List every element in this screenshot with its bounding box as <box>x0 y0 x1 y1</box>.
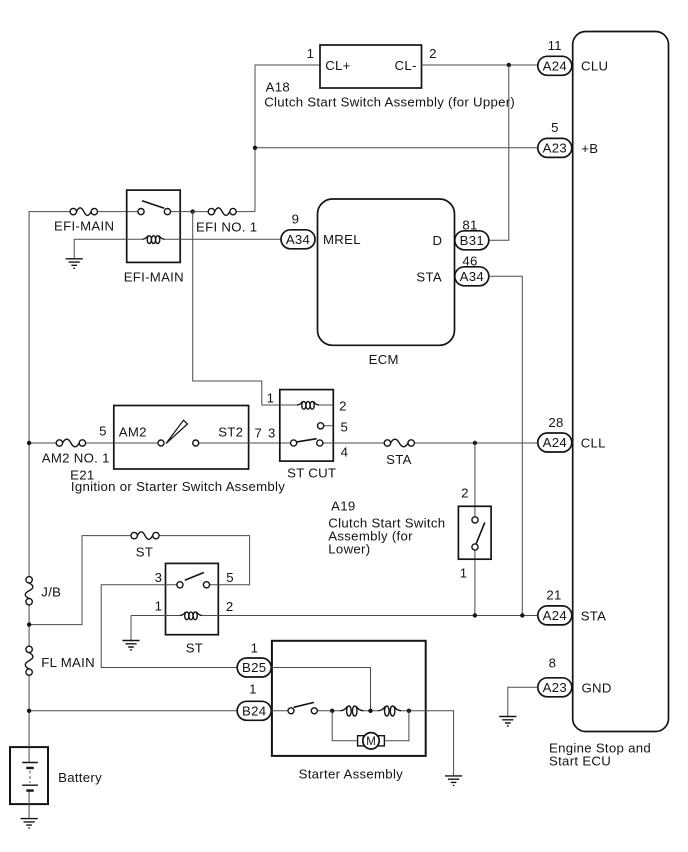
switch blade AM2/ST2 <box>166 420 188 443</box>
ground: battery <box>21 819 38 829</box>
starter magnetic switch <box>288 702 317 713</box>
relay ST CUT <box>267 390 349 481</box>
node: bus / AM2 junction <box>27 441 31 445</box>
svg-text:STA: STA <box>386 452 412 467</box>
clutch start switch lower box A19 <box>328 486 491 581</box>
svg-text:A19: A19 <box>331 499 355 514</box>
node: motor return <box>407 709 411 713</box>
svg-text:EFI NO. 1: EFI NO. 1 <box>196 220 257 235</box>
svg-text:46: 46 <box>462 254 477 269</box>
svg-text:CL-: CL- <box>395 58 417 73</box>
svg-text:B31: B31 <box>460 233 484 248</box>
wire: A34 STA down to STA line <box>489 276 523 615</box>
svg-text:ECM: ECM <box>369 352 399 367</box>
svg-text:A24: A24 <box>543 58 567 73</box>
svg-text:Clutch Start Switch Assembly (: Clutch Start Switch Assembly (for Upper) <box>264 95 515 110</box>
wire: vertical riser to clutch switch upper, with +B tap <box>255 65 538 212</box>
svg-text:AM2 NO. 1: AM2 NO. 1 <box>42 451 110 466</box>
svg-text:+B: +B <box>581 141 598 156</box>
wire: CL- to A24 CLU <box>422 64 538 66</box>
svg-text:A23: A23 <box>543 140 567 155</box>
svg-text:5: 5 <box>99 424 107 439</box>
node: CLL / clutch lower junction <box>473 441 477 445</box>
svg-text:1: 1 <box>460 566 468 581</box>
svg-text:MREL: MREL <box>323 232 361 247</box>
wire: ST2 to ST CUT <box>249 442 291 444</box>
wire: B24 line from bus <box>29 710 237 712</box>
svg-text:ST CUT: ST CUT <box>287 466 336 481</box>
svg-text:1: 1 <box>307 46 315 61</box>
node: bus / ST branch junction <box>27 622 31 626</box>
svg-text:3: 3 <box>268 426 276 441</box>
svg-text:EFI-MAIN: EFI-MAIN <box>54 219 114 234</box>
wire: AM2 line from bus to ignition switch <box>29 442 56 444</box>
coil of relay ST <box>180 612 202 620</box>
starter assembly box <box>272 641 426 782</box>
svg-text:2: 2 <box>429 46 437 61</box>
svg-text:5: 5 <box>340 420 348 435</box>
svg-text:3: 3 <box>155 570 163 585</box>
motor M <box>358 733 385 749</box>
wire: ST relay pin 3 to B25 <box>101 585 237 668</box>
connector B24 pin 1 <box>237 682 271 721</box>
svg-text:8: 8 <box>549 656 557 671</box>
svg-text:CLL: CLL <box>581 436 606 451</box>
wire: A23 GND to ground <box>508 687 538 716</box>
connector B31 D pin 81 <box>455 217 489 250</box>
svg-text:GND: GND <box>582 681 612 696</box>
svg-text:Battery: Battery <box>58 770 102 785</box>
wire: relay coil line to A34 MREL and to ground <box>74 239 281 258</box>
svg-text:M: M <box>366 736 376 748</box>
svg-text:81: 81 <box>462 217 477 232</box>
fuse ST <box>131 532 250 585</box>
ECM box <box>318 199 455 367</box>
fuse EFI-MAIN <box>54 208 114 234</box>
svg-text:1: 1 <box>155 599 163 614</box>
connector A24 STA pin 21 <box>538 588 606 625</box>
wire: EFI-MAIN fuse to relay <box>98 211 138 213</box>
svg-text:A34: A34 <box>286 232 310 247</box>
coil of relay ST CUT <box>297 401 319 409</box>
fuse FL MAIN <box>25 646 95 675</box>
svg-text:ST2: ST2 <box>218 425 243 440</box>
svg-text:AM2: AM2 <box>119 425 147 440</box>
svg-text:2: 2 <box>226 599 234 614</box>
node: clutch lower / STA junction <box>473 613 477 617</box>
connector A34 MREL pin 9 <box>281 212 315 249</box>
ground: ST relay coil <box>122 641 139 651</box>
svg-text:STA: STA <box>416 269 442 284</box>
fuse EFI NO. 1 <box>193 208 258 235</box>
node: motor branch <box>330 709 334 713</box>
ground: ECU GND <box>499 717 516 727</box>
relay ST <box>131 563 234 655</box>
node: B25 / solenoid junction <box>368 709 372 713</box>
ground: EFI-MAIN relay coil <box>66 259 83 269</box>
connector B25 pin 1 <box>237 641 271 678</box>
svg-text:Lower): Lower) <box>328 542 370 557</box>
relay EFI-MAIN <box>124 190 193 284</box>
battery <box>10 747 102 819</box>
svg-text:21: 21 <box>546 588 561 603</box>
fuse STA <box>333 439 538 467</box>
svg-text:CLU: CLU <box>581 59 608 74</box>
svg-text:9: 9 <box>292 212 300 227</box>
connector A23 GND pin 8 <box>538 656 612 697</box>
node: bus / B24 junction <box>27 709 31 713</box>
svg-text:7: 7 <box>254 426 262 441</box>
svg-text:B25: B25 <box>242 660 266 675</box>
svg-text:11: 11 <box>548 38 562 53</box>
svg-text:B24: B24 <box>242 703 266 718</box>
wire: STA line from ST relay coil to A24 STA <box>218 615 538 617</box>
engine stop and start ECU box <box>549 32 669 769</box>
svg-text:Start ECU: Start ECU <box>549 754 611 769</box>
coil: starter hold-in <box>378 706 401 716</box>
svg-text:5: 5 <box>551 120 559 135</box>
svg-text:J/B: J/B <box>41 585 61 600</box>
node: CLU / B31 junction <box>507 63 511 67</box>
wire: down to clutch start switch lower <box>474 443 476 615</box>
connector A23 +B pin 5 <box>538 120 599 157</box>
wire: left bus from EFI-MAIN line down to battery <box>29 212 70 748</box>
svg-text:Starter Assembly: Starter Assembly <box>299 767 404 782</box>
svg-text:4: 4 <box>341 445 349 460</box>
svg-text:1: 1 <box>267 391 275 406</box>
connector A34 STA pin 46 <box>455 254 489 286</box>
svg-text:2: 2 <box>461 486 469 501</box>
svg-text:CL+: CL+ <box>325 58 350 73</box>
wire: motor branch <box>332 711 409 741</box>
coil of relay EFI-MAIN <box>143 236 165 244</box>
ground: starter <box>445 776 462 786</box>
svg-text:Ignition or Starter Switch Ass: Ignition or Starter Switch Assembly <box>71 479 285 494</box>
svg-text:A34: A34 <box>460 269 484 284</box>
terminal circles AM2 switch <box>158 440 164 446</box>
svg-text:1: 1 <box>249 682 257 697</box>
wire: ST CUT pin 1 feed from EFI NO.1 junction <box>193 212 280 405</box>
clutch start switch upper box A18 <box>264 45 515 110</box>
connector A24 CLL pin 28 <box>538 415 606 452</box>
svg-text:EFI-MAIN: EFI-MAIN <box>124 270 184 285</box>
svg-text:ST: ST <box>136 545 153 560</box>
svg-text:ST: ST <box>186 641 203 656</box>
svg-text:A23: A23 <box>543 680 567 695</box>
svg-text:D: D <box>433 233 443 248</box>
node: +B tap <box>253 146 257 150</box>
connector A24 CLU pin 11 <box>538 38 608 75</box>
fuse AM2 NO. 1 <box>42 439 114 465</box>
wire: junction down to B31 D <box>489 65 509 240</box>
fuse J/B <box>25 577 61 605</box>
svg-text:1: 1 <box>251 641 259 656</box>
svg-text:A18: A18 <box>266 80 290 95</box>
node: junction EFI NO.1 / ST CUT branch <box>191 209 195 213</box>
coil: starter pull-in <box>340 706 363 716</box>
svg-text:A24: A24 <box>543 435 567 450</box>
wire: B25 into starter, down to solenoid junction <box>271 668 370 711</box>
svg-text:FL MAIN: FL MAIN <box>41 655 95 670</box>
svg-text:28: 28 <box>548 415 563 430</box>
wire: B24 through starter switch and coils <box>271 711 453 776</box>
svg-text:2: 2 <box>339 399 347 414</box>
node: ECM STA / STA junction <box>520 613 524 617</box>
svg-text:5: 5 <box>226 570 234 585</box>
svg-text:A24: A24 <box>543 608 567 623</box>
wire: ST branch from bus <box>29 536 131 625</box>
ignition switch box E21 <box>70 406 285 495</box>
svg-text:STA: STA <box>581 609 607 624</box>
